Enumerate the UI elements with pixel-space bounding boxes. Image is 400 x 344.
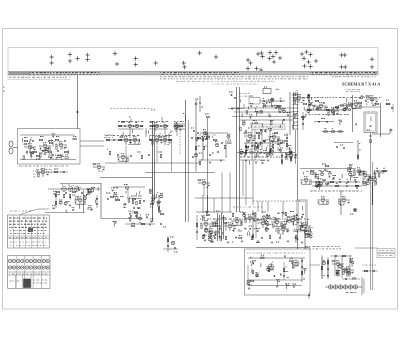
LO gnd 2 <box>241 241 244 242</box>
ladder tail verticals <box>296 130 298 164</box>
audio line h183 <box>60 183 101 185</box>
width coil cluster <box>163 236 178 252</box>
cluster 296 <box>293 95 305 103</box>
right wire y142 <box>334 142 353 144</box>
PS rail y258 <box>248 257 305 259</box>
switch unit header <box>9 237 47 239</box>
IF top row wire <box>118 128 185 130</box>
video amp component group <box>240 140 296 163</box>
center wire h160 <box>240 159 265 161</box>
tube top-view symbol T34 <box>302 56 306 60</box>
tube top-view symbol T8 <box>113 51 117 55</box>
video wire h120 <box>240 119 293 121</box>
tube top-view symbol T22 <box>254 66 258 70</box>
sync cap 3 <box>217 151 220 153</box>
RM above cluster <box>322 164 330 173</box>
margin numeral 1 <box>3 85 6 89</box>
tube top-view symbol T26 <box>271 54 275 58</box>
oscillator tube B3 <box>55 142 67 150</box>
tube top-view symbol T35 <box>306 60 310 64</box>
vert x290 <box>289 92 291 135</box>
tuner coil L1 <box>21 138 24 142</box>
LO right chain <box>252 210 256 240</box>
tube top-view symbol T33 <box>308 52 312 56</box>
det tube B15b <box>170 125 173 128</box>
IF top tube B5 <box>135 123 139 128</box>
RF amplifier tube B1 <box>24 144 36 152</box>
switch unit lower text <box>10 242 46 245</box>
IF mid row parts <box>106 139 172 141</box>
tube top-view symbol T5 <box>75 56 79 60</box>
PS below marks <box>308 292 310 299</box>
center hang 3 <box>269 143 273 155</box>
LO cluster 5 <box>277 226 289 234</box>
tuner enclosure box <box>18 129 81 165</box>
volume pot cluster <box>93 164 105 172</box>
tuner internal bottom wire <box>20 159 76 161</box>
bus line x239 <box>239 87 241 212</box>
tube top-view symbol T13 <box>182 61 186 65</box>
caps near bus top <box>229 92 235 99</box>
PS rect tube B29 <box>293 260 299 266</box>
caption row right <box>332 76 376 78</box>
line output component group <box>206 211 313 242</box>
antenna input symbol <box>9 141 18 154</box>
tube top-view symbol T3 <box>68 52 72 56</box>
tube top-view symbol T43 <box>370 57 374 61</box>
tube top-view symbol T30 <box>278 56 282 60</box>
tube table header text <box>9 273 47 275</box>
LO mid marks <box>233 206 262 208</box>
knot at 196-155 <box>192 153 202 157</box>
audio vert x101 <box>100 183 102 219</box>
sound component group <box>123 194 163 221</box>
tube top-view symbol T42 <box>343 65 347 69</box>
IF-sound link wire <box>100 177 153 179</box>
video cluster box <box>249 96 260 104</box>
tuner sub cap <box>60 171 68 173</box>
IF top row parts <box>118 125 185 127</box>
RM top wire <box>300 168 356 170</box>
svg-text:SCHEMA B 7 X 41 A: SCHEMA B 7 X 41 A <box>342 82 380 87</box>
right link wire <box>355 106 380 108</box>
AGC box text <box>254 126 283 128</box>
LO cluster 7 <box>299 223 311 231</box>
center right column <box>284 133 292 163</box>
center verticals <box>252 130 270 161</box>
delay line text <box>346 292 356 294</box>
center drop <box>242 160 244 196</box>
tube table stamp <box>24 279 31 288</box>
IF row gap patch 1 <box>143 120 150 131</box>
switch unit outer box <box>8 215 50 248</box>
IF row gap patch 2 <box>168 120 174 131</box>
video det cap chain <box>197 96 203 112</box>
sound bottom wire <box>101 218 143 220</box>
audio caps right <box>96 195 98 208</box>
tuner output wire b <box>80 145 104 147</box>
feed cross mark <box>194 102 197 105</box>
PS right cluster4 <box>342 267 354 275</box>
IF top tube B8 <box>175 123 179 128</box>
knot at 196-133 <box>191 128 198 134</box>
tube top-view symbol T2 <box>50 61 54 65</box>
PS corner gnd <box>247 285 252 289</box>
video wire h116 <box>232 115 293 117</box>
right edge parts <box>385 100 393 112</box>
switch dark cell <box>28 228 33 232</box>
audio cluster right <box>74 197 86 205</box>
sound left comps <box>106 193 114 200</box>
PS right bits <box>362 264 376 266</box>
tuner trimmer C5 <box>50 154 53 158</box>
knot at 196-138 <box>191 134 210 139</box>
sound top wire <box>113 186 145 188</box>
right mid wire y121 <box>314 119 334 123</box>
tube top-view symbol T12 <box>154 61 158 65</box>
audio left marks <box>33 171 40 177</box>
tube top-view symbol T9 <box>115 62 119 66</box>
IF stage 1 tube B9 <box>120 137 132 145</box>
caption row mid2 <box>176 80 276 82</box>
audio line h189 <box>48 188 101 190</box>
RM topright cluster <box>353 168 371 180</box>
tube top-view symbol T20 <box>259 51 263 55</box>
IF test line (dashed) <box>110 108 150 110</box>
IF stage 2 tube B10 <box>129 137 141 145</box>
sound bottom tube <box>138 217 141 220</box>
center hang 1 <box>245 143 247 155</box>
PS right tube <box>322 261 341 267</box>
sound lead strokes <box>115 190 159 223</box>
PS right cluster1 <box>321 257 324 279</box>
tube top-view symbol T16 <box>214 55 218 59</box>
caption row left text <box>9 76 66 78</box>
PS box <box>245 249 311 295</box>
heater chain text bar marks <box>9 73 377 75</box>
tuner row parts <box>24 137 65 143</box>
tube top-view symbol T14 <box>182 65 186 69</box>
tube top-view symbol T7 <box>85 57 89 61</box>
RM module innards <box>301 206 303 227</box>
IF bottom wire <box>105 162 200 164</box>
IF sound takeoff res <box>107 149 111 155</box>
center tube B-W <box>268 134 280 142</box>
PS lead strokes <box>251 257 293 278</box>
bus line x153b <box>154 122 156 200</box>
tube top-view symbol T18 <box>248 61 252 65</box>
audio component group 2 <box>64 187 95 209</box>
tube top-view symbol T38 <box>314 59 318 63</box>
LO gnd 1 <box>204 240 207 241</box>
IF input marker <box>104 135 113 137</box>
knot at 196-164 <box>199 160 202 165</box>
tube top-view symbol T23 <box>246 66 250 70</box>
tube top-view symbol T15 <box>198 51 202 55</box>
margin numeral 2 <box>3 89 6 93</box>
PS rect tube B28 <box>268 264 274 270</box>
LO wire top <box>195 197 253 199</box>
bus line x237 <box>236 87 238 212</box>
IF inter-row verticals <box>130 128 177 138</box>
RM row chain <box>312 179 360 183</box>
sound bottom wire2 <box>125 223 155 225</box>
video cluster parts <box>239 94 251 97</box>
tuner output wire a <box>80 140 104 142</box>
det tube B15 <box>170 124 182 132</box>
right col parts <box>302 112 306 130</box>
IF top coupling cap <box>145 125 148 127</box>
LO band dark labels <box>200 218 308 220</box>
cross at can wire <box>390 129 393 132</box>
right chain x358 <box>357 140 360 160</box>
right top extra <box>305 107 351 114</box>
svg-text:2·: 2· <box>3 89 6 93</box>
tuner caption <box>19 165 69 167</box>
tube base diagrams <box>8 259 49 269</box>
RT tube B16 <box>315 103 327 111</box>
RM small cluster <box>350 208 357 214</box>
tuner component group 2 <box>29 140 68 158</box>
audio comps <box>55 191 57 208</box>
top-center lead strokes <box>241 89 298 128</box>
sound below comps <box>130 215 141 218</box>
tuner sub resistor <box>54 169 58 173</box>
switch leader line <box>20 209 49 215</box>
hf res row b <box>262 105 282 107</box>
tuner resistor R4 <box>36 155 40 159</box>
LO left cluster2 <box>205 229 217 237</box>
RT can innards <box>367 117 372 130</box>
RT IF can box <box>364 112 377 133</box>
PS right cluster3 <box>332 261 344 269</box>
top small box <box>263 87 271 94</box>
PS inner component group 2 <box>252 255 307 285</box>
note right wire <box>355 247 377 249</box>
tube table mid rule <box>8 272 50 275</box>
RM vertical x372b <box>371 182 373 205</box>
PS right component group <box>336 259 354 277</box>
PS right top <box>330 255 352 257</box>
sync gnd 1 <box>209 162 212 163</box>
right row component group <box>347 165 381 181</box>
label box 1 <box>377 249 395 253</box>
IF bottom wire 2 <box>145 172 215 174</box>
audio switch cluster <box>37 169 49 177</box>
audio tube B20 <box>62 185 67 191</box>
bus line x185 <box>185 100 187 222</box>
sync res 3 <box>224 145 225 148</box>
sound cap on wire <box>116 187 119 189</box>
svg-text:E a: E a <box>151 108 156 112</box>
sync component group <box>195 134 231 143</box>
IF row labels mid <box>106 135 172 137</box>
note WEERSTANDEN <box>305 247 341 249</box>
tube top-view symbol T36 <box>302 64 306 68</box>
RM cluster mid <box>317 197 329 205</box>
tube top-view symbol T1 <box>50 55 54 59</box>
tube top-view symbol T37 <box>308 64 312 68</box>
label E a <box>151 108 156 112</box>
LO band top boundary <box>196 211 232 213</box>
center gnds <box>245 160 270 163</box>
center hang 4 <box>281 153 283 165</box>
bus line x297 <box>297 164 299 200</box>
tuner feed line from heater bar <box>77 75 79 129</box>
sound br comps <box>160 224 166 227</box>
tube top-view symbol T27 <box>274 50 278 54</box>
LO band upper parts <box>208 212 298 217</box>
video wire h108 <box>232 107 293 109</box>
IF hang parts <box>130 152 162 159</box>
IF sound takeoff cap <box>117 154 119 157</box>
sync cap 1 <box>221 142 223 145</box>
cluster 356 top <box>350 101 362 109</box>
bar dark segment <box>9 72 310 75</box>
line output gnd row <box>211 241 304 243</box>
sync tube Bb <box>215 142 219 147</box>
IF inter-group link top <box>146 126 153 137</box>
top marks right <box>346 90 360 92</box>
title SCHEMA B 7 X 41 A <box>342 82 380 87</box>
tube top-view symbol T31 <box>300 52 304 56</box>
AGC gray box <box>252 124 285 130</box>
sync bottom wire <box>198 159 225 161</box>
audio res 2 <box>69 194 70 197</box>
tuner coil L2 <box>67 150 70 154</box>
IF stage drop 1 <box>125 146 127 163</box>
sync tube Ba <box>203 130 207 135</box>
sound drop x128 <box>127 189 129 198</box>
tuner feed arrow <box>76 111 79 114</box>
RM vertical x341 <box>340 190 342 215</box>
tube table columns <box>16 255 41 288</box>
RM cluster mid2 <box>338 197 350 205</box>
det top wire <box>169 123 185 125</box>
sync gnd 2 <box>220 160 223 161</box>
IF top coupling cap 2 <box>170 125 173 127</box>
tube top-view symbol T44 <box>370 65 374 69</box>
LO transformer <box>216 211 227 241</box>
vertical feed at x196 <box>195 98 197 172</box>
terminal ladder strip <box>293 92 299 130</box>
PS gnd <box>276 286 279 287</box>
LO left cluster <box>200 221 212 229</box>
right mid extra <box>310 183 362 191</box>
mixer tube B2 <box>39 143 51 151</box>
sync lower tube <box>198 180 210 196</box>
switch unit inner grid <box>8 215 50 248</box>
PS inner component group <box>247 255 296 289</box>
center rail y152 <box>237 150 295 154</box>
heater chain text bar <box>8 72 378 75</box>
tube top-view symbol T32 <box>304 50 308 54</box>
sound bottom comps <box>141 223 150 225</box>
right mid component group 2 <box>310 170 376 188</box>
right top row parts <box>303 100 378 108</box>
LO cluster 4 <box>257 220 269 228</box>
IF top row pip 1 <box>129 117 131 123</box>
IF misc cluster <box>117 154 129 162</box>
RT tube B17 <box>327 108 339 116</box>
tube top-view symbol T41 <box>339 65 343 69</box>
IF top tube B7 <box>163 123 167 128</box>
tube table note text <box>33 280 47 283</box>
audio link wire <box>48 171 63 173</box>
audio res 1 <box>63 194 64 197</box>
top-right component group <box>302 94 357 125</box>
IF top row pip 3 <box>183 114 186 123</box>
center low labels <box>240 156 295 158</box>
can top wire <box>372 129 390 134</box>
RT vertical x352 <box>352 95 354 132</box>
IF stage 4 tube B12 <box>159 137 171 145</box>
audio tube B21 <box>68 185 73 191</box>
LO bottom wire <box>196 247 310 249</box>
tube top-view symbol T4 <box>68 59 72 63</box>
PS inner wire <box>248 285 302 287</box>
audio extra parts <box>56 191 92 195</box>
LO feed verticals <box>203 195 283 214</box>
video wire h112 <box>234 111 293 113</box>
PS comps left <box>248 262 258 285</box>
PS right cluster2 <box>327 259 329 279</box>
video sub cluster2 <box>260 125 272 133</box>
RT network <box>338 105 353 111</box>
sound res on wire <box>124 185 129 189</box>
delay line top parts <box>342 278 360 280</box>
audio component group <box>52 189 93 210</box>
audio line h212 <box>45 212 85 214</box>
LO verticals <box>222 160 253 214</box>
tube top-view symbol T21 <box>260 54 264 58</box>
hf res row a <box>260 98 285 102</box>
tube top-view symbol T24 <box>259 68 263 72</box>
LO extra cluster <box>224 223 236 231</box>
IF row labels top <box>118 121 184 123</box>
center ladder parts <box>246 128 278 134</box>
tube top-view symbol T40 <box>343 53 347 57</box>
tube top-view symbol T10 <box>134 56 138 60</box>
tube top-view symbol T6 <box>85 53 89 57</box>
IF top tube B6 <box>155 123 159 128</box>
delay line coils <box>328 285 357 289</box>
IF top tube B4 <box>128 123 132 128</box>
RM module box <box>297 200 307 231</box>
below can parts <box>370 133 372 163</box>
center net extra2 <box>250 140 283 165</box>
bus line x297 low <box>297 231 299 249</box>
tube table cell text <box>10 280 22 282</box>
tuner row parts 2 <box>27 148 68 153</box>
switch unit contacts <box>9 218 47 234</box>
caption row left <box>8 75 70 79</box>
bus line x305 low <box>304 231 306 249</box>
center hang 2 <box>257 143 260 157</box>
audio tube B22 <box>74 187 79 192</box>
audio lead strokes <box>56 186 99 213</box>
LO tube B23 <box>231 218 243 226</box>
sync vert x203 <box>202 138 204 160</box>
dashed vert x180 <box>179 130 181 155</box>
center net extra <box>245 134 283 148</box>
line output component group 2 <box>201 212 303 241</box>
IF top res <box>122 121 125 122</box>
tube top-view symbol T28 <box>267 56 271 60</box>
bus line x188 <box>187 120 189 222</box>
IF strip lead strokes <box>123 128 171 139</box>
PS link to right <box>310 264 320 266</box>
